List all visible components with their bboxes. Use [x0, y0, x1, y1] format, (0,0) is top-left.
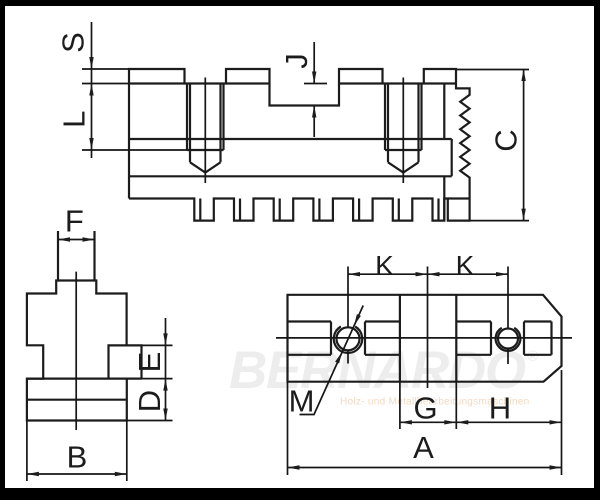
screw 2 body	[385, 84, 422, 151]
svg-text:K: K	[456, 250, 475, 281]
dimension C line	[523, 69, 525, 221]
arrow A left	[288, 465, 300, 469]
svg-text:B: B	[67, 439, 88, 474]
arrow J bottom	[312, 106, 316, 118]
watermark BERNARDO	[229, 341, 539, 400]
screw centre lines	[205, 78, 403, 184]
arrow A right	[550, 465, 562, 469]
top view: internal body lines	[129, 139, 452, 176]
front view: groove lines	[27, 379, 142, 400]
svg-text:L: L	[57, 111, 92, 128]
top view: block 2, J-notch, block 3	[226, 69, 383, 106]
threaded hole 1	[337, 327, 360, 350]
dimension A line	[288, 467, 562, 469]
svg-text:H: H	[489, 391, 511, 426]
svg-text:A: A	[413, 430, 434, 465]
arrow S/L shared	[89, 84, 93, 96]
svg-text:G: G	[413, 391, 437, 426]
front view centre line	[75, 272, 77, 430]
dimension E/D line	[165, 318, 167, 421]
arrow K2 left	[428, 272, 440, 276]
svg-text:C: C	[489, 129, 524, 151]
plan view: cross slot verticals	[400, 295, 456, 382]
arrow H left	[456, 420, 468, 424]
J extension line	[304, 83, 327, 85]
top view: jaw body left edge and block 1	[129, 69, 185, 199]
E and D extension lines	[127, 345, 173, 420]
svg-text:S: S	[56, 32, 91, 53]
arrow B left	[27, 472, 39, 476]
svg-text:®: ®	[527, 348, 539, 365]
arrow B right	[115, 472, 127, 476]
arrow J top	[312, 72, 316, 84]
arrow H right	[550, 420, 562, 424]
plan view: slot band segments	[288, 322, 332, 355]
top view: internal verticals near serration	[444, 84, 469, 221]
arrow S top	[89, 57, 93, 69]
arrow C top	[521, 69, 525, 81]
top view: block 4 and serrated right edge	[129, 69, 470, 221]
svg-text:E: E	[132, 352, 167, 373]
arrow K2 right	[496, 272, 508, 276]
plan view: body outline with chamfered right end	[288, 295, 562, 382]
screw 2 inner and tip	[388, 84, 419, 173]
arrow M upper	[354, 314, 361, 326]
dimension texts	[56, 32, 524, 474]
front view: side nib rectangle	[109, 345, 142, 378]
top view: bottom teeth inner lines	[200, 199, 438, 221]
svg-text:M: M	[289, 383, 315, 418]
extension lines top view left	[82, 69, 187, 150]
dimension J line	[313, 42, 315, 137]
svg-text:D: D	[132, 390, 167, 412]
threaded hole 2	[498, 329, 518, 349]
arrow K1 left	[348, 272, 360, 276]
M leader line	[300, 306, 364, 415]
arrow D bottom	[163, 409, 167, 421]
arrow K1 right	[416, 272, 428, 276]
arrow F left	[58, 237, 70, 241]
front view: tenon shoulder line	[58, 279, 95, 281]
svg-text:J: J	[279, 53, 314, 69]
plan view centre line	[276, 337, 572, 339]
svg-text:F: F	[65, 204, 84, 239]
C extension lines	[457, 70, 529, 221]
arrow G right	[444, 420, 456, 424]
svg-text:K: K	[375, 250, 394, 281]
svg-text:BERNARDO: BERNARDO	[229, 341, 526, 400]
top view: surface line y=83.5	[129, 82, 457, 84]
dimension S/L line	[91, 22, 93, 158]
arrow C bottom	[521, 209, 525, 221]
A extension lines	[288, 370, 562, 475]
arrow G left	[400, 420, 412, 424]
dimension K line	[348, 273, 508, 275]
arrowheads	[27, 57, 562, 476]
B extension lines	[27, 421, 127, 482]
arrow E top	[163, 333, 167, 345]
front view: jaw outline	[27, 231, 127, 421]
arrow M lower	[335, 352, 342, 364]
screw 1 inner and tip	[190, 84, 221, 173]
arrow L bottom	[89, 138, 93, 150]
arrow E/D shared	[163, 379, 167, 391]
K extension and hole centre lines	[347, 267, 349, 364]
dimension G/H line	[400, 421, 562, 423]
dimension B line	[27, 473, 127, 475]
dimension F line	[58, 239, 95, 241]
G extension lines	[400, 382, 456, 429]
arrow F right	[83, 237, 95, 241]
screw 1 body	[187, 84, 224, 151]
